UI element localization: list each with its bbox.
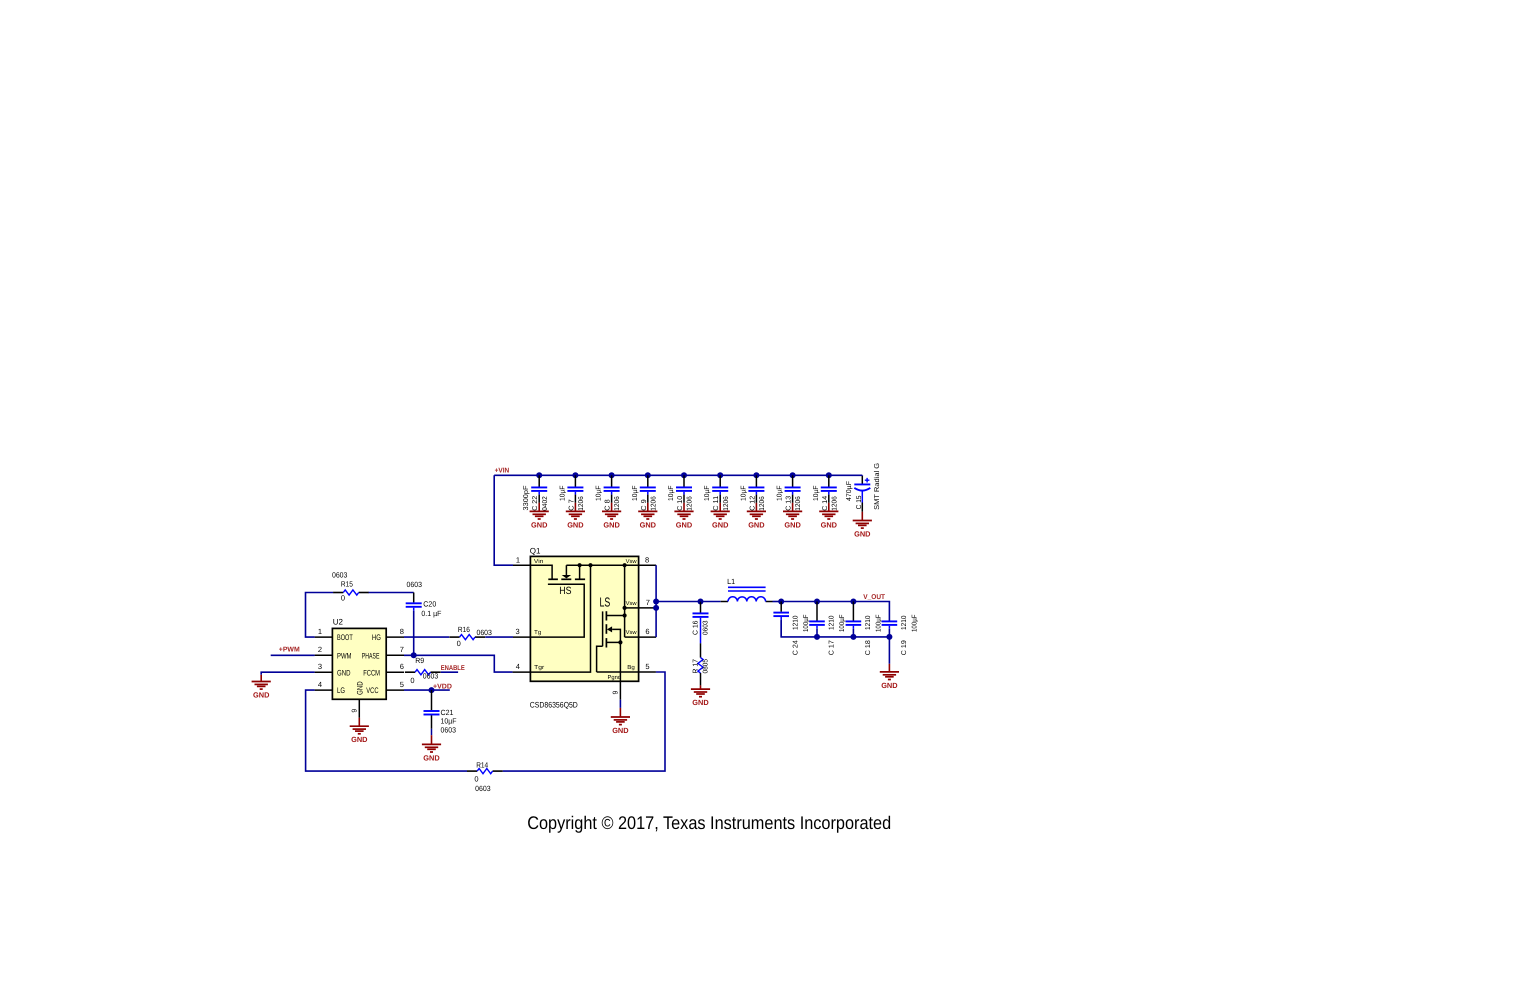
svg-text:GND: GND <box>692 698 709 707</box>
capacitor C10 <box>668 475 694 511</box>
svg-text:10µF: 10µF <box>777 486 784 502</box>
svg-text:PHASE: PHASE <box>362 651 380 660</box>
R17 lead to ground <box>700 673 702 685</box>
Q1 pin 9 Pgnd <box>612 681 620 717</box>
svg-text:2: 2 <box>318 645 322 654</box>
junction C18 <box>850 599 856 605</box>
wire output cap bottom rail <box>781 620 889 637</box>
svg-text:10µF: 10µF <box>740 486 747 502</box>
wire L1 to output <box>773 601 782 603</box>
Q1 pin 8 Vsw <box>639 564 657 566</box>
svg-text:GND: GND <box>612 726 629 735</box>
svg-text:10µF: 10µF <box>813 486 820 502</box>
junction C18 bottom <box>850 634 856 640</box>
svg-text:GND: GND <box>712 520 729 529</box>
capacitor C14 <box>813 475 839 511</box>
svg-text:5: 5 <box>645 662 649 671</box>
U2 pin names <box>337 633 381 695</box>
junction pin7 row <box>623 606 627 610</box>
svg-text:0402: 0402 <box>542 496 549 511</box>
svg-text:C 7: C 7 <box>568 499 575 511</box>
U2 pin 5 VCC <box>386 689 404 691</box>
resistor R17 <box>698 658 703 673</box>
svg-text:PWM: PWM <box>337 651 352 660</box>
resistor R9 <box>405 670 441 675</box>
svg-text:1206: 1206 <box>614 496 621 511</box>
svg-text:Vin: Vin <box>534 558 544 565</box>
wire BOOT to R15 <box>306 593 334 638</box>
transistor LS (internal) <box>597 595 625 672</box>
capacitor C15 470uF polarized <box>846 463 881 521</box>
ground GND under C13 <box>783 511 802 529</box>
U2 pin 4 LG <box>315 689 333 691</box>
svg-text:R16: R16 <box>458 625 470 634</box>
junction +VIN/C10 <box>681 472 687 478</box>
svg-text:4: 4 <box>318 680 322 689</box>
svg-text:C 17: C 17 <box>829 640 836 655</box>
wire C16 to L1 <box>701 601 721 603</box>
junction +VIN/C8 <box>609 472 615 478</box>
svg-text:C20: C20 <box>423 599 436 608</box>
svg-text:100µF: 100µF <box>839 615 846 633</box>
ground GND under C15 <box>853 521 872 539</box>
U2 pin 6 FCCM <box>386 671 404 673</box>
R15 labels <box>332 570 353 602</box>
svg-text:0603: 0603 <box>423 672 439 681</box>
svg-text:8: 8 <box>645 555 649 564</box>
ground GND at U2 pin3 <box>252 682 271 700</box>
svg-text:1210: 1210 <box>901 615 908 630</box>
svg-text:C 14: C 14 <box>822 496 829 511</box>
wire Q1 internal Vsw rail <box>566 564 638 566</box>
ground GND under Q1 pin9 <box>611 717 630 735</box>
svg-text:U2: U2 <box>333 618 344 627</box>
svg-text:470µF: 470µF <box>846 481 853 501</box>
svg-text:1206: 1206 <box>578 496 585 511</box>
svg-text:10µF: 10µF <box>668 486 675 502</box>
U2 pin 9 (GND pad) <box>351 699 359 726</box>
capacitor C24 <box>773 602 810 656</box>
svg-text:+PWM: +PWM <box>279 647 300 654</box>
ground GND under C19 <box>880 672 899 690</box>
transistor block Q1 CSD86356Q5D <box>530 546 639 709</box>
svg-text:Tg: Tg <box>534 630 541 636</box>
svg-text:Q1: Q1 <box>530 546 541 555</box>
wire R16 to Q1 pin3 <box>485 636 513 638</box>
ground stem U2.3 <box>260 675 262 682</box>
svg-text:Tgr: Tgr <box>534 665 544 671</box>
svg-text:GND: GND <box>356 681 365 695</box>
ground GND under C7 <box>566 511 585 529</box>
Q1 pin 7 Vsw <box>639 607 657 609</box>
svg-text:GND: GND <box>821 520 838 529</box>
ground GND under C21 <box>422 744 441 762</box>
svg-text:HS: HS <box>559 585 571 597</box>
svg-text:ENABLE: ENABLE <box>441 665 465 672</box>
ground GND under C9 <box>638 511 657 529</box>
Q1 pin 3 Tg <box>513 636 530 638</box>
svg-text:GND: GND <box>748 520 765 529</box>
svg-text:100µF: 100µF <box>911 615 918 633</box>
wire C20 to PHASE node <box>413 611 415 656</box>
U2 pin 3 GND <box>315 671 333 673</box>
junction C24 <box>778 599 784 605</box>
wire ENABLE stub <box>441 671 458 673</box>
svg-text:GND: GND <box>603 520 620 529</box>
svg-text:GND: GND <box>531 520 548 529</box>
svg-text:9: 9 <box>612 691 619 695</box>
svg-text:9: 9 <box>351 709 358 713</box>
capacitor C7 <box>559 475 585 511</box>
junction LS source/body <box>618 640 622 644</box>
svg-text:7: 7 <box>400 645 404 654</box>
svg-text:0603: 0603 <box>475 784 491 793</box>
junction Vsw out <box>653 599 659 605</box>
wire V_OUT rail <box>781 602 889 622</box>
transistor HS (internal) <box>530 565 585 637</box>
svg-text:0805: 0805 <box>702 659 709 674</box>
svg-text:Vsw: Vsw <box>626 630 638 636</box>
svg-text:Bg: Bg <box>627 665 635 671</box>
svg-text:C 22: C 22 <box>532 496 539 511</box>
svg-text:100µF: 100µF <box>803 615 810 633</box>
svg-text:C 11: C 11 <box>713 496 720 511</box>
svg-text:3300pF: 3300pF <box>523 486 530 511</box>
Q1 pin 1 Vin <box>513 564 530 566</box>
capacitor C17 <box>809 602 846 656</box>
svg-text:1: 1 <box>516 555 520 564</box>
svg-text:C 12: C 12 <box>749 496 756 511</box>
svg-text:Pgnd: Pgnd <box>608 674 622 681</box>
capacitor C21 <box>424 690 457 744</box>
ground GND under C14 <box>819 511 838 529</box>
svg-text:6: 6 <box>645 627 649 636</box>
svg-text:1206: 1206 <box>831 496 838 511</box>
svg-text:0: 0 <box>474 774 478 783</box>
svg-text:10µF: 10µF <box>704 486 711 502</box>
wire R15 to C20 <box>369 592 414 594</box>
junction +VIN/C11 <box>717 472 723 478</box>
resistor R16 <box>449 635 485 640</box>
svg-text:0: 0 <box>341 594 345 603</box>
junction +VIN/C12 <box>753 472 759 478</box>
junction +VIN/C13 <box>790 472 796 478</box>
svg-text:CSD86356Q5D: CSD86356Q5D <box>530 700 578 709</box>
Q1 pin 5 Bg <box>639 671 656 673</box>
svg-text:1206: 1206 <box>759 496 766 511</box>
svg-text:GND: GND <box>253 691 270 700</box>
svg-text:GND: GND <box>567 520 584 529</box>
inductor L1 <box>721 577 773 602</box>
svg-text:Vsw: Vsw <box>626 601 638 607</box>
svg-text:SMT Radial G: SMT Radial G <box>873 463 881 510</box>
capacitor C9 <box>632 475 658 511</box>
ground GND under C12 <box>747 511 766 529</box>
svg-text:+VDD: +VDD <box>433 683 452 690</box>
svg-text:L1: L1 <box>727 577 735 586</box>
R16 labels <box>457 625 492 648</box>
svg-text:C 18: C 18 <box>865 640 872 655</box>
svg-text:C 10: C 10 <box>677 496 684 511</box>
U2 pin 7 PHASE <box>386 654 404 656</box>
wire +VIN horizontal rail <box>494 474 862 476</box>
junction +VIN/C7 <box>572 472 578 478</box>
wire VCC to +VDD <box>404 689 450 691</box>
junction LS drain <box>623 613 627 617</box>
capacitor C18 <box>846 602 883 656</box>
wire R14 to Q1 pin5 Bg <box>503 672 665 771</box>
svg-text:1210: 1210 <box>829 615 836 630</box>
ground GND under C11 <box>711 511 730 529</box>
svg-text:R15: R15 <box>341 579 353 588</box>
Q1 pin 6 Vsw <box>639 636 657 638</box>
svg-text:10µF: 10µF <box>632 486 639 502</box>
svg-text:0.1 µF: 0.1 µF <box>421 609 441 618</box>
junction Vsw pin7 <box>653 605 659 611</box>
svg-text:0: 0 <box>457 639 461 648</box>
resistor R15 <box>333 590 369 595</box>
ground GND under U2 pin9 <box>350 726 369 744</box>
svg-text:100µF: 100µF <box>875 615 882 633</box>
wire +VIN down to Q1 pin1 <box>494 475 513 565</box>
ground GND under C22 <box>530 511 549 529</box>
ground GND under R17 <box>691 689 710 707</box>
svg-text:VCC: VCC <box>366 686 378 695</box>
svg-text:V_OUT: V_OUT <box>863 594 885 601</box>
svg-text:6: 6 <box>400 662 404 671</box>
svg-text:0603: 0603 <box>476 628 492 637</box>
svg-text:4: 4 <box>516 662 520 671</box>
svg-text:C 16: C 16 <box>693 620 700 635</box>
capacitor C13 <box>777 475 803 511</box>
junction +VIN/C22 <box>536 472 542 478</box>
wire HG to R16 <box>404 636 449 638</box>
svg-text:7: 7 <box>646 598 650 607</box>
junction +VIN/C14 <box>826 472 832 478</box>
svg-text:1210: 1210 <box>865 615 872 630</box>
svg-text:GND: GND <box>784 520 801 529</box>
svg-text:0603: 0603 <box>702 620 709 635</box>
svg-text:R 17: R 17 <box>693 659 700 674</box>
svg-text:GND: GND <box>640 520 657 529</box>
junction C17 <box>814 599 820 605</box>
svg-text:0603: 0603 <box>407 580 423 589</box>
svg-text:10µF: 10µF <box>441 717 457 726</box>
wire LG down to R14 <box>306 690 467 771</box>
junction +VIN/C9 <box>645 472 651 478</box>
capacitor C16 <box>693 602 710 658</box>
svg-text:C 24: C 24 <box>793 640 800 655</box>
svg-text:FCCM: FCCM <box>363 668 380 677</box>
C19 ground stem <box>888 637 890 664</box>
wire Q1 internal Vsw to pins 7/6 <box>624 565 626 637</box>
ground GND under C8 <box>602 511 621 529</box>
wire U2.3 GND <box>261 672 314 675</box>
svg-text:HG: HG <box>372 633 381 642</box>
svg-text:C 9: C 9 <box>641 499 648 511</box>
junction +VDD/C21 <box>429 687 435 693</box>
svg-text:BOOT: BOOT <box>337 633 353 642</box>
svg-text:+VIN: +VIN <box>495 468 510 475</box>
capacitor C8 <box>596 475 622 511</box>
svg-text:C 8: C 8 <box>605 499 612 511</box>
junction Vsw rail/pin7 branch <box>623 563 627 567</box>
svg-text:GND: GND <box>676 520 693 529</box>
wire Q1 internal Tgr <box>530 565 590 672</box>
wire PHASE to Q1 Tgr <box>404 655 513 672</box>
junction C19 bottom <box>886 634 892 640</box>
svg-text:10µF: 10µF <box>596 486 603 502</box>
U2 pin 2 PWM <box>315 654 333 656</box>
svg-text:0603: 0603 <box>441 726 457 735</box>
svg-text:R9: R9 <box>415 656 424 665</box>
svg-text:0: 0 <box>410 676 414 685</box>
R9 labels <box>410 656 438 685</box>
junction C17 bottom <box>814 634 820 640</box>
svg-text:1206: 1206 <box>723 496 730 511</box>
svg-text:Copyright © 2017, Texas Instru: Copyright © 2017, Texas Instruments Inco… <box>527 812 891 833</box>
U2 pin 1 BOOT <box>315 636 333 638</box>
svg-text:GND: GND <box>881 681 898 690</box>
junction C16 top <box>698 599 704 605</box>
svg-text:Vsw: Vsw <box>626 559 638 565</box>
svg-text:GND: GND <box>423 753 440 762</box>
svg-text:0603: 0603 <box>332 570 348 579</box>
svg-text:GND: GND <box>351 735 368 744</box>
wire Q1 internal Bg row <box>597 671 639 673</box>
capacitor C11 <box>704 475 730 511</box>
svg-text:5: 5 <box>400 680 404 689</box>
ground GND under C10 <box>674 511 693 529</box>
svg-text:3: 3 <box>318 662 322 671</box>
resistor R14 <box>467 769 503 774</box>
U2 pin 8 HG <box>386 636 404 638</box>
svg-text:GND: GND <box>337 668 351 677</box>
R14 labels <box>474 761 490 793</box>
wire Vsw pins 8-7-6 vertical <box>655 565 657 637</box>
svg-text:1206: 1206 <box>795 496 802 511</box>
Q1 pin 4 Tgr <box>513 671 531 673</box>
svg-text:3: 3 <box>516 627 520 636</box>
capacitor C20 <box>406 580 442 618</box>
svg-text:R14: R14 <box>476 761 488 770</box>
svg-text:C 13: C 13 <box>786 496 793 511</box>
capacitor C12 <box>740 475 766 511</box>
svg-text:1210: 1210 <box>793 615 800 630</box>
svg-text:10µF: 10µF <box>559 486 566 502</box>
svg-text:C 19: C 19 <box>901 640 908 655</box>
wire +PWM to U2.2 <box>271 654 315 656</box>
wire Vsw to C16/L1 <box>656 601 700 603</box>
svg-text:LG: LG <box>337 686 345 695</box>
svg-text:1206: 1206 <box>650 496 657 511</box>
Q1 pin names <box>534 558 638 681</box>
capacitor C19 <box>882 615 919 656</box>
svg-text:LS: LS <box>600 595 611 610</box>
wire LS source to Pgnd <box>619 642 621 681</box>
svg-text:1: 1 <box>318 627 322 636</box>
junction HS source/Vsw rail <box>578 563 582 567</box>
svg-text:1206: 1206 <box>687 496 694 511</box>
junction PHASE/C20 <box>411 652 417 658</box>
op-amp/driver U2 <box>332 618 386 700</box>
junction Vsw rail/Tgr <box>588 563 592 567</box>
capacitor C22 <box>523 475 549 511</box>
svg-text:C 15: C 15 <box>856 495 863 509</box>
svg-text:8: 8 <box>400 627 404 636</box>
svg-text:GND: GND <box>854 530 871 539</box>
